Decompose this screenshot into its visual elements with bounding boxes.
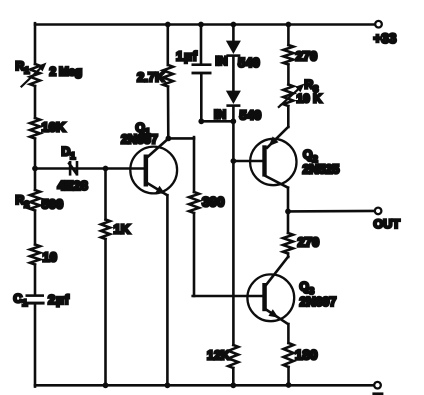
svg-text:R2: R2 bbox=[16, 193, 30, 211]
R1 wiper arrowhead bbox=[37, 63, 46, 72]
ground symbol bbox=[372, 392, 383, 395]
wire 1uf cap down bbox=[200, 74, 203, 121]
svg-text:2 Meg: 2 Meg bbox=[50, 65, 82, 79]
capacitor 1uf bbox=[192, 63, 212, 66]
wire node A to R2 bbox=[34, 169, 37, 191]
svg-text:2N697: 2N697 bbox=[121, 133, 158, 147]
wire diagonal into Q2 bbox=[267, 127, 288, 148]
node D cap corner bbox=[198, 118, 204, 124]
svg-text:2N697: 2N697 bbox=[300, 295, 337, 309]
svg-text:R1: R1 bbox=[16, 59, 31, 77]
wire 180 to bottom bus bbox=[287, 367, 290, 385]
svg-text:2µf: 2µf bbox=[48, 292, 70, 307]
resistor 270 lower bbox=[283, 233, 293, 254]
wire left rail top bbox=[34, 23, 37, 64]
wire R1 to 10K bbox=[34, 86, 37, 118]
terminal ground bbox=[374, 382, 381, 389]
wire OUT node to 270 lower bbox=[287, 211, 290, 233]
resistor R1 2 Meg bbox=[30, 64, 40, 86]
wire R2 to 10 bbox=[34, 211, 37, 245]
wire diode chain down bbox=[232, 107, 235, 345]
svg-text:12K: 12K bbox=[207, 349, 230, 363]
wire cap corner to diode chain bbox=[201, 120, 233, 123]
wire bus to 1uf cap bbox=[200, 25, 203, 64]
wire 1K top bbox=[104, 169, 107, 220]
node B junction 1K branch bbox=[103, 166, 109, 172]
wire bus to diode 1N540 upper bbox=[232, 25, 235, 42]
transistor Q3 2N697 bbox=[247, 274, 294, 321]
wire 12K to bottom bus bbox=[232, 368, 235, 385]
wire OUT bbox=[288, 210, 375, 213]
svg-text:1µf: 1µf bbox=[176, 49, 198, 64]
wire Q2 collector down to OUT node bbox=[287, 188, 290, 212]
resistor R3 10K bbox=[283, 85, 293, 107]
wire 2.7K to node C bbox=[167, 87, 170, 139]
junction diode chain top bus bbox=[231, 22, 237, 28]
svg-text:OUT: OUT bbox=[374, 217, 401, 231]
wire between diodes bbox=[232, 57, 235, 91]
diode 1N540 upper bbox=[226, 41, 241, 57]
node E cap junction on diode chain bbox=[230, 118, 236, 124]
svg-text:270: 270 bbox=[298, 235, 320, 250]
svg-text:10 K: 10 K bbox=[297, 92, 323, 106]
transistor Q1 2N697 bbox=[130, 147, 177, 194]
svg-text:500: 500 bbox=[42, 197, 64, 212]
capacitor C1 2uf bbox=[26, 294, 45, 297]
wire Q3 emitter down bbox=[287, 324, 290, 343]
svg-text:4E28: 4E28 bbox=[58, 178, 88, 193]
svg-text:270: 270 bbox=[296, 49, 318, 64]
wire 270 to R3 bbox=[287, 65, 290, 85]
svg-text:390: 390 bbox=[202, 195, 225, 210]
wire bottom ground bus bbox=[35, 384, 374, 387]
R3 wiper arrowhead bbox=[295, 84, 304, 93]
resistor 10K bbox=[30, 118, 40, 139]
node F Q2 base junction bbox=[231, 158, 237, 164]
resistor 10 bbox=[30, 245, 40, 265]
wire bus to 2.7K bbox=[167, 25, 170, 66]
wire Q1 emitter to bottom bus bbox=[166, 195, 169, 385]
svg-text:1K: 1K bbox=[114, 222, 131, 237]
svg-text:2.7K: 2.7K bbox=[137, 70, 165, 85]
wire R3 to Q2 emitter lead bbox=[287, 106, 290, 127]
svg-text:540: 540 bbox=[240, 108, 262, 123]
node C Q1 collector junction bbox=[166, 136, 172, 142]
wire node C to 390 top corner bbox=[168, 137, 194, 140]
wire 10 to C1 bbox=[34, 265, 37, 295]
wire corner to Q3 base bbox=[193, 295, 263, 298]
wire C1 to bottom bus bbox=[34, 305, 37, 387]
wire 390 to corner bbox=[193, 213, 196, 296]
svg-text:IN: IN bbox=[214, 108, 226, 122]
junction 12K bottom bus bbox=[230, 382, 236, 388]
terminal OUT bbox=[375, 208, 382, 215]
junction Q1 emitter bottom bus bbox=[165, 382, 171, 388]
resistor 2.7K bbox=[163, 65, 173, 87]
diode D1 4E28 symbol bbox=[67, 161, 78, 176]
wire 390 top bbox=[193, 137, 196, 192]
R1 wiper arrow line bbox=[22, 69, 41, 87]
svg-text:10K: 10K bbox=[42, 120, 66, 135]
resistor R2 500 bbox=[30, 190, 40, 211]
svg-text:D1: D1 bbox=[62, 145, 77, 163]
svg-text:10: 10 bbox=[43, 250, 57, 265]
wire Q2 base bbox=[233, 160, 262, 163]
terminal +33 supply bbox=[375, 21, 382, 28]
wire bus to 270 upper bbox=[287, 25, 290, 46]
resistor 390 bbox=[189, 192, 199, 213]
wire 10K to node A bbox=[34, 139, 37, 169]
wire node A to Q1 base bbox=[35, 167, 144, 170]
svg-text:C1: C1 bbox=[14, 292, 29, 310]
wire 1K to bottom bus bbox=[104, 239, 107, 385]
resistor 270 upper bbox=[283, 45, 293, 65]
junction 2.7K top bus bbox=[165, 22, 171, 28]
junction 180 bottom bus bbox=[286, 382, 292, 388]
svg-text:180: 180 bbox=[295, 348, 318, 363]
R3 wiper arrow line bbox=[279, 90, 298, 107]
wire top supply bus bbox=[35, 23, 375, 26]
svg-text:IN: IN bbox=[216, 54, 228, 68]
junction 1uf top bus bbox=[198, 22, 204, 28]
diode 1N540 lower bbox=[226, 91, 241, 107]
svg-text:2N525: 2N525 bbox=[303, 163, 340, 177]
node OUT junction bbox=[285, 209, 291, 215]
wire diagonal into Q3 collector bbox=[266, 257, 288, 285]
resistor 12K bbox=[228, 345, 238, 368]
resistor 180 bbox=[284, 343, 294, 367]
transistor Q2 2N525 bbox=[250, 139, 296, 185]
svg-text:+33: +33 bbox=[374, 31, 397, 46]
wire 270 lower down bbox=[287, 254, 290, 258]
resistor 1K bbox=[101, 220, 110, 240]
svg-text:540: 540 bbox=[238, 55, 260, 70]
junction 270 top bus bbox=[286, 22, 292, 28]
junction 1K bottom bus bbox=[103, 382, 109, 388]
node A junction left rail bbox=[32, 166, 38, 172]
